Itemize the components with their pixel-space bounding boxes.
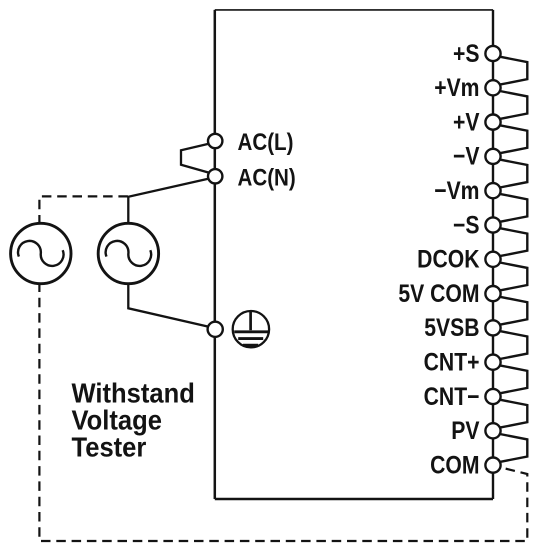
- wire V2 to PE terminal: [128, 283, 208, 327]
- terminal AC(N): [208, 169, 222, 183]
- jumper wire -S to DCOK: [500, 228, 528, 256]
- terminal PE ground: [208, 322, 223, 337]
- label Withstand Voltage Tester: [72, 377, 195, 462]
- terminal 5VSB: [485, 320, 500, 335]
- protective earth symbol: [233, 311, 269, 347]
- svg-text:+Vm: +Vm: [434, 73, 479, 101]
- svg-text:Tester: Tester: [72, 431, 147, 462]
- terminal 5V COM: [485, 286, 500, 301]
- jumper wire +Vm to +V: [500, 91, 528, 119]
- svg-text:−S: −S: [453, 211, 479, 239]
- svg-text:+S: +S: [453, 39, 479, 67]
- svg-text:−V: −V: [453, 142, 480, 170]
- dashed wire V1 bottom to COM: [39, 283, 527, 542]
- terminal COM: [485, 458, 500, 473]
- terminal +S: [485, 46, 500, 61]
- svg-text:AC(N): AC(N): [238, 164, 296, 191]
- terminal +Vm: [485, 80, 500, 95]
- sine symbol V1: [18, 241, 63, 266]
- svg-text:+V: +V: [453, 108, 480, 136]
- terminal -S: [485, 217, 500, 232]
- jumper wire CNT+ to CNT-: [500, 365, 528, 393]
- jumper wire +V to -V: [500, 125, 528, 153]
- AC source V1: [11, 223, 71, 283]
- jumper wire -Vm to -S: [500, 194, 528, 222]
- svg-text:CNT−: CNT−: [424, 382, 480, 410]
- jumper wire CNT- to PV: [500, 400, 528, 428]
- svg-text:5V COM: 5V COM: [398, 279, 479, 307]
- jumper wire 5VSB to CNT+: [500, 331, 528, 359]
- device box outline: [215, 10, 493, 499]
- wire AC(N) to V2: [128, 179, 209, 225]
- terminal PV: [485, 423, 500, 438]
- svg-text:DCOK: DCOK: [417, 245, 479, 273]
- terminal DCOK: [485, 252, 500, 267]
- jumper wire +S to +Vm: [500, 57, 528, 85]
- svg-text:−Vm: −Vm: [434, 176, 479, 204]
- jumper wire 5V COM to 5VSB: [500, 297, 528, 325]
- terminal -V: [485, 149, 500, 164]
- jumper wire PV to COM: [500, 434, 528, 462]
- terminal -Vm: [485, 183, 500, 198]
- jumper wire AC(L) to AC(N): [181, 144, 209, 173]
- jumper wire -V to -Vm: [500, 160, 528, 188]
- svg-text:CNT+: CNT+: [424, 348, 480, 376]
- terminal +V: [485, 115, 500, 130]
- sine symbol V2: [106, 241, 151, 266]
- svg-text:5VSB: 5VSB: [424, 313, 479, 341]
- dashed wire V1 top to junction: [39, 196, 128, 224]
- terminal CNT+: [485, 355, 500, 370]
- terminal CNT-: [485, 389, 500, 404]
- AC source V2: [98, 223, 158, 283]
- jumper wire DCOK to 5V COM: [500, 263, 528, 291]
- terminal AC(L): [208, 134, 222, 148]
- svg-text:PV: PV: [451, 416, 480, 444]
- svg-text:AC(L): AC(L): [238, 128, 294, 155]
- svg-text:COM: COM: [430, 451, 479, 479]
